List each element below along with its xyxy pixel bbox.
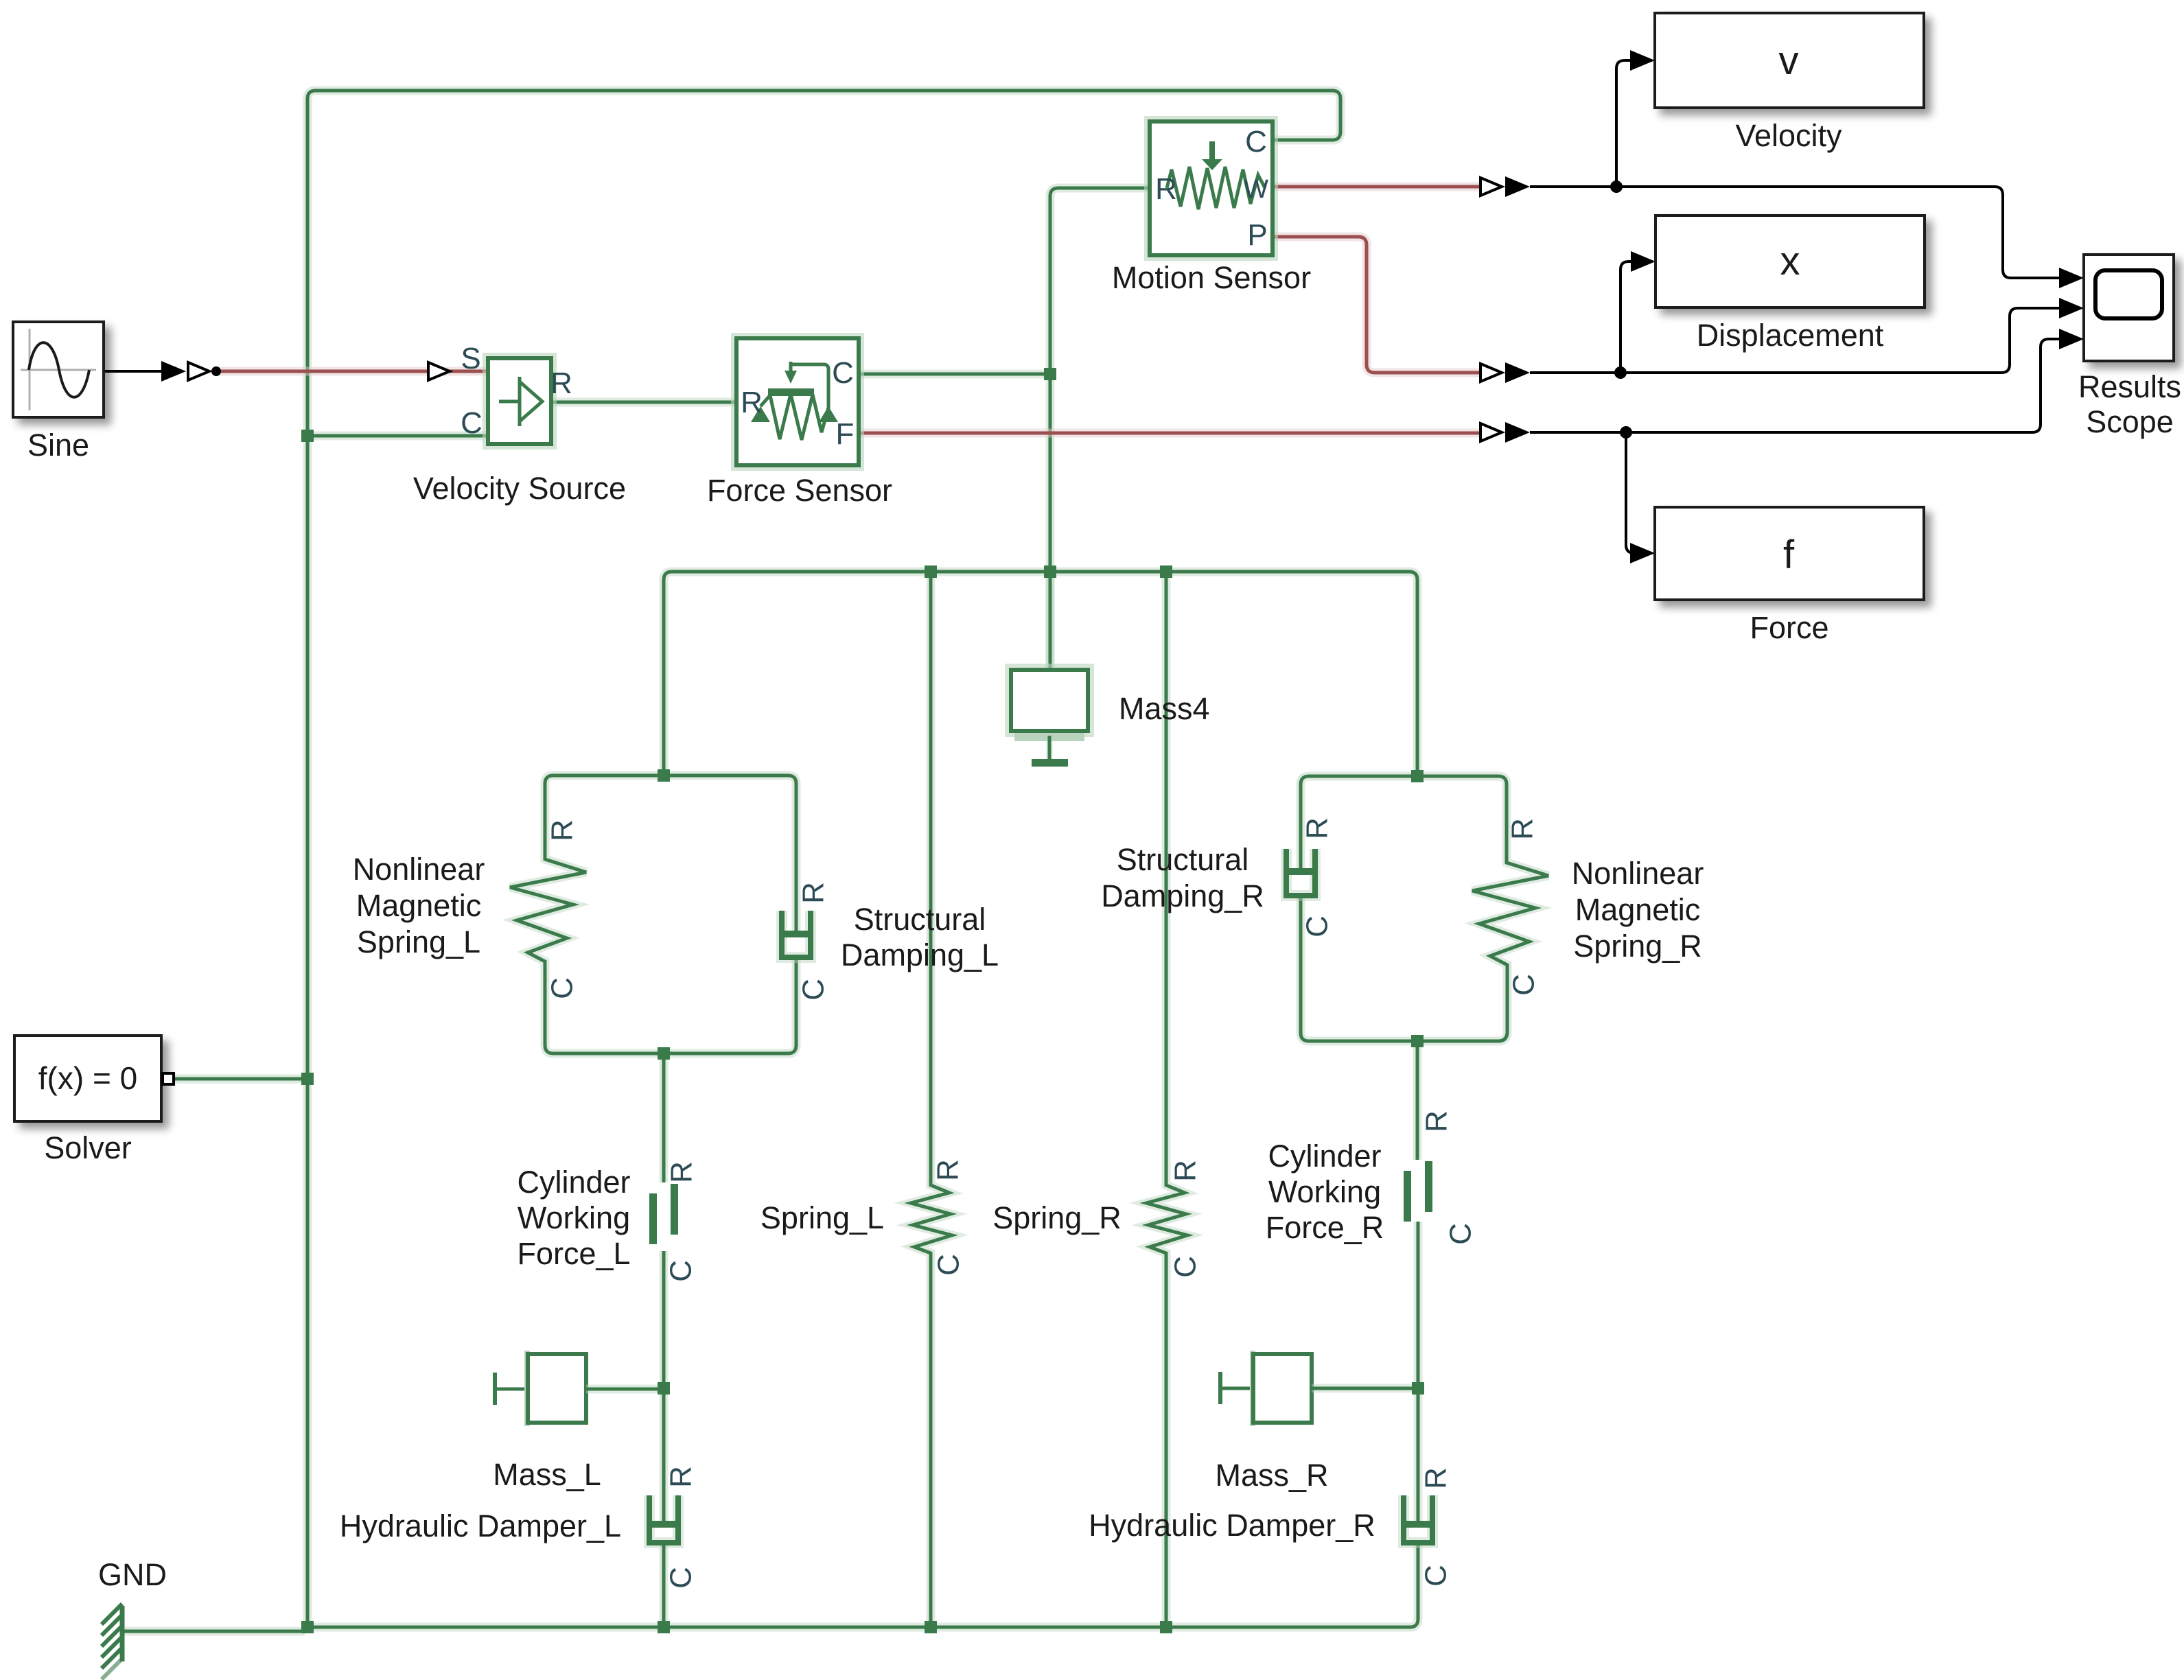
wire: Cylinder Working Force_R to Mass_R node and Hydraulic Damper_R xyxy=(1414,1222,1423,1524)
svg-text:f: f xyxy=(1783,533,1795,577)
junction: rail / Velocity Source C xyxy=(301,430,314,442)
sink block v (Velocity) xyxy=(1655,13,1924,108)
sensor block Motion Sensor xyxy=(1147,119,1275,258)
wire: Force Sensor C to center node xyxy=(859,370,1050,379)
svg-text:Spring_R: Spring_R xyxy=(992,1200,1122,1235)
svg-text:C: C xyxy=(546,977,579,999)
svg-text:Nonlinear: Nonlinear xyxy=(353,852,485,887)
wire: rail to Velocity Source C port xyxy=(307,432,488,441)
svg-text:GND: GND xyxy=(98,1557,167,1592)
signal wire: f line (Force Sensor F to Force and Scope) xyxy=(1480,423,1502,441)
svg-text:C: C xyxy=(664,1260,698,1282)
solver block f(x)=0 xyxy=(14,1036,161,1121)
svg-text:Displacement: Displacement xyxy=(1697,318,1884,353)
svg-text:S: S xyxy=(461,342,480,375)
svg-text:R: R xyxy=(550,366,572,400)
ps wire: Force Sensor F output xyxy=(859,429,1484,438)
junction: right loop bottom xyxy=(1411,1035,1424,1047)
svg-text:R: R xyxy=(665,1161,699,1183)
svg-text:Working: Working xyxy=(1268,1174,1381,1209)
svg-text:Force: Force xyxy=(1750,610,1828,645)
svg-text:Scope: Scope xyxy=(2086,404,2174,439)
junction: rail / bottom bus xyxy=(301,1621,314,1633)
sink block f (Force) xyxy=(1655,507,1924,600)
svg-text:R: R xyxy=(664,1466,698,1488)
svg-text:R: R xyxy=(1419,1467,1453,1489)
wire: Mass4 reference stub xyxy=(1047,736,1053,759)
source block Sine xyxy=(13,322,104,417)
svg-text:x: x xyxy=(1780,239,1800,283)
ps port arrow: Velocity Source S input xyxy=(428,362,450,380)
wire: Structural Damping_R branch lower xyxy=(1301,898,1417,1041)
scope block Results Scope xyxy=(2084,255,2174,361)
wire: Structural Damping_L branch upper xyxy=(664,775,796,931)
svg-text:Mass_R: Mass_R xyxy=(1215,1458,1328,1493)
svg-text:Nonlinear: Nonlinear xyxy=(1572,856,1704,891)
svg-text:Damping_L: Damping_L xyxy=(841,937,999,972)
source Cylinder Working Force_R (ideal force source bars) xyxy=(1404,1171,1411,1222)
sensor block Force Sensor xyxy=(734,336,861,468)
junction: left loop top xyxy=(658,769,670,782)
svg-text:R: R xyxy=(1506,818,1540,840)
Force Sensor icon xyxy=(760,394,828,440)
mass block Mass4 xyxy=(1008,666,1091,734)
junction: Mass_R node xyxy=(1412,1382,1424,1395)
svg-text:Structural: Structural xyxy=(1117,842,1249,877)
damper Hydraulic Damper_L xyxy=(649,1495,678,1543)
junction: bottom bus / Spring_L xyxy=(925,1621,937,1633)
Motion Sensor icon xyxy=(1167,167,1265,209)
svg-text:F: F xyxy=(836,417,855,451)
svg-text:Cylinder: Cylinder xyxy=(1268,1139,1381,1174)
junction: bus / Spring_R xyxy=(1160,565,1172,578)
svg-text:Damping_R: Damping_R xyxy=(1101,878,1264,913)
svg-text:R: R xyxy=(1420,1110,1454,1132)
wire: Hydraulic Damper_L to bottom bus xyxy=(660,1545,669,1627)
junction: left loop bottom xyxy=(658,1047,670,1060)
wire: right loop bottom to Cylinder Working Force_R xyxy=(1413,1041,1422,1160)
svg-text:R: R xyxy=(546,819,579,841)
svg-text:Spring_L: Spring_L xyxy=(357,924,480,959)
svg-text:R: R xyxy=(931,1159,965,1181)
spring Nonlinear Magnetic Spring_L (left branch of left loop) xyxy=(510,775,664,1053)
svg-text:C: C xyxy=(1169,1256,1203,1278)
damper Structural Damping_L xyxy=(782,911,811,957)
mass block Mass_L xyxy=(493,1373,497,1405)
source Cylinder Working Force_L (ideal force source bars) xyxy=(649,1193,657,1244)
ps wire: Motion Sensor P output xyxy=(1273,237,1484,373)
svg-text:Velocity Source: Velocity Source xyxy=(413,471,626,506)
svg-text:Mass_L: Mass_L xyxy=(493,1457,601,1492)
wire: left loop bottom to Cylinder Working Force_L xyxy=(660,1053,669,1182)
signal wire: v line (Motion Sensor W to Velocity and Scope) xyxy=(1480,178,1502,196)
svg-text:Hydraulic Damper_L: Hydraulic Damper_L xyxy=(340,1508,621,1543)
svg-text:Velocity: Velocity xyxy=(1735,118,1842,153)
wire: main horizontal bus xyxy=(664,572,1417,776)
Sine icon xyxy=(21,329,96,410)
ps wire: Motion Sensor W output xyxy=(1273,183,1484,191)
signal wire: Sine output xyxy=(104,370,165,373)
svg-text:Spring_L: Spring_L xyxy=(760,1200,884,1235)
wire: GND stub xyxy=(124,1627,305,1636)
svg-text:Working: Working xyxy=(518,1200,630,1235)
svg-text:C: C xyxy=(1301,915,1334,937)
wire: Solver to rail xyxy=(173,1075,307,1084)
svg-text:Mass4: Mass4 xyxy=(1119,691,1210,726)
svg-text:Motion Sensor: Motion Sensor xyxy=(1112,260,1311,295)
wire: bottom bus to Hydraulic Damper_R xyxy=(307,1545,1418,1627)
svg-text:R: R xyxy=(741,386,763,419)
junction: f line xyxy=(1620,426,1632,439)
damper Structural Damping_R xyxy=(1286,849,1315,896)
svg-text:R: R xyxy=(1301,817,1334,839)
sink block x (Displacement) xyxy=(1656,215,1925,307)
svg-text:C: C xyxy=(1507,974,1541,996)
svg-text:Structural: Structural xyxy=(854,902,986,937)
wire: Motion Sensor R down to Mass4 xyxy=(1050,188,1150,670)
spring Nonlinear Magnetic Spring_R (right branch of right loop) xyxy=(1417,776,1548,1041)
junction: bus / center vertical xyxy=(1044,565,1056,578)
junction: bottom bus / Spring_R xyxy=(1160,1621,1172,1633)
wire: Velocity Source R to Force Sensor R xyxy=(551,398,736,407)
junction: right loop top xyxy=(1411,770,1424,782)
signal wire: x line (Motion Sensor P to Displacement and Scope) xyxy=(1480,364,1502,382)
ground GND symbol xyxy=(120,1606,125,1661)
svg-text:C: C xyxy=(832,356,854,390)
svg-text:Solver: Solver xyxy=(44,1130,132,1165)
wire: Cylinder Working Force_L to Mass_L node and Hydraulic Damper_L xyxy=(660,1251,669,1524)
svg-text:C: C xyxy=(461,406,483,440)
wire: Mass_L to left chain node xyxy=(586,1385,664,1394)
svg-text:Sine: Sine xyxy=(27,428,89,463)
svg-text:R: R xyxy=(1169,1160,1203,1182)
svg-text:C: C xyxy=(1419,1565,1453,1587)
wire: Structural Damping_R branch upper xyxy=(1301,776,1417,869)
svg-text:Cylinder: Cylinder xyxy=(517,1165,630,1200)
spring Spring_R (branch with zigzag) xyxy=(1146,572,1187,1627)
svg-text:W: W xyxy=(1244,175,1268,204)
wire: Motion Sensor C to top-left rail down to bottom bus xyxy=(307,91,1340,1627)
junction: bus / Spring_L xyxy=(925,565,937,578)
junction: x line xyxy=(1614,366,1627,379)
svg-text:Spring_R: Spring_R xyxy=(1573,929,1702,964)
svg-text:C: C xyxy=(797,979,830,1001)
junction: center node (Force Sensor C) xyxy=(1044,368,1056,380)
svg-text:Force_L: Force_L xyxy=(517,1236,630,1271)
svg-text:v: v xyxy=(1779,38,1799,83)
Velocity Source icon (arrow) xyxy=(499,377,520,426)
svg-text:P: P xyxy=(1247,218,1267,252)
svg-text:R: R xyxy=(1155,172,1177,206)
Solver physical network port xyxy=(163,1073,174,1084)
wire: Mass_R to right chain node xyxy=(1312,1384,1418,1393)
mass block Mass_R xyxy=(1218,1372,1222,1404)
junction: rail / Solver xyxy=(301,1073,314,1085)
svg-text:Results: Results xyxy=(2078,369,2181,404)
wire: Structural Damping_L branch lower xyxy=(664,960,796,1053)
svg-text:Force_R: Force_R xyxy=(1266,1210,1384,1245)
damper Hydraulic Damper_R xyxy=(1404,1495,1432,1543)
Mass4 reference bar xyxy=(1032,759,1068,767)
Results Scope screen xyxy=(2095,270,2162,318)
svg-text:Hydraulic Damper_R: Hydraulic Damper_R xyxy=(1089,1508,1375,1543)
svg-text:C: C xyxy=(932,1254,966,1276)
svg-text:C: C xyxy=(664,1567,698,1589)
junction: bottom bus / Hydraulic Damper_L xyxy=(658,1621,670,1633)
svg-text:Force Sensor: Force Sensor xyxy=(707,473,892,508)
source block Velocity Source xyxy=(485,355,554,447)
junction: Mass_L node xyxy=(658,1382,670,1395)
svg-text:R: R xyxy=(797,882,830,904)
svg-text:Magnetic: Magnetic xyxy=(1575,892,1701,927)
spring Spring_L (branch with zigzag) xyxy=(911,572,952,1627)
ps wire: Sine converter to Velocity Source S xyxy=(218,367,488,376)
svg-text:f(x) = 0: f(x) = 0 xyxy=(38,1060,137,1096)
svg-text:Magnetic: Magnetic xyxy=(356,888,482,923)
junction: v line xyxy=(1610,180,1623,193)
svg-text:C: C xyxy=(1245,125,1267,159)
wire: bus to Mass4 xyxy=(1046,572,1055,670)
svg-text:C: C xyxy=(1444,1223,1478,1245)
